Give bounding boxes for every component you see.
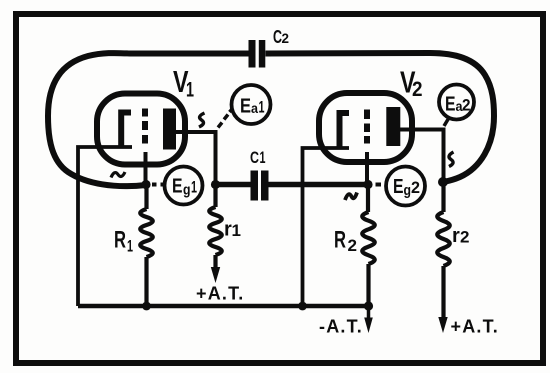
junction node cathode V2 bottom: [298, 302, 307, 311]
arrow to +A.T. right: [438, 317, 447, 333]
wire C1 right: [269, 182, 369, 188]
arrow to -A.T.: [367, 306, 371, 320]
svg-text:R: R: [334, 227, 346, 254]
svg-text:+A.T.: +A.T.: [451, 317, 500, 337]
wire feedback loop right (C2 to V2 anode): [266, 53, 495, 182]
svg-text:+A.T.: +A.T.: [196, 284, 245, 304]
node Eg1: [165, 167, 203, 205]
cathode of V1: [121, 113, 131, 148]
node Ea1: [232, 85, 271, 124]
svg-text:1: 1: [127, 237, 133, 256]
wire cathode V1: [78, 147, 132, 306]
cathode of V2: [340, 113, 350, 148]
svg-text:R: R: [114, 227, 126, 254]
node Eg2: [386, 167, 425, 206]
node Ea1 dashes: [218, 109, 233, 128]
svg-text:-A.T.: -A.T.: [319, 317, 363, 337]
wire anode V1: [175, 132, 216, 185]
svg-text:E: E: [393, 176, 404, 198]
node Eg2 dash: [376, 183, 382, 187]
node Ea2 dash: [444, 119, 449, 127]
anode of V2 (plate): [386, 107, 400, 146]
svg-text:r: r: [452, 225, 460, 247]
wire C1 left: [216, 182, 251, 188]
svg-text:2: 2: [348, 236, 358, 255]
anode of V1 (plate): [163, 109, 176, 150]
svg-text:2: 2: [462, 96, 471, 115]
junction node V2 anode: [438, 177, 448, 187]
resistor R2: [362, 185, 375, 307]
svg-text:a: a: [251, 100, 258, 116]
svg-text:2: 2: [411, 178, 420, 197]
node Eg1 dashes: [152, 183, 165, 187]
svg-text:2: 2: [412, 78, 423, 101]
svg-text:g: g: [183, 182, 191, 199]
junction node V1 grid: [141, 180, 150, 189]
svg-text:1: 1: [186, 79, 194, 102]
bottom rail wire: [78, 304, 368, 309]
resistor r2: [437, 182, 450, 319]
AC mark near V2 grid: [345, 193, 357, 201]
svg-text:1: 1: [191, 178, 197, 197]
wire anode V2: [399, 130, 444, 183]
wire grid V1 to node: [144, 152, 148, 185]
svg-text:1: 1: [260, 148, 266, 167]
AC mark near V2 anode: [449, 152, 454, 167]
AC mark near V1 cathode: [111, 172, 125, 178]
svg-text:E: E: [240, 96, 251, 118]
capacitor C2: [249, 40, 266, 68]
svg-text:1: 1: [259, 98, 265, 117]
tube V1 envelope: [97, 94, 185, 165]
node Ea2: [439, 85, 474, 120]
junction node R1 bottom: [142, 302, 151, 311]
wire feedback loop left (V1 grid to C2): [48, 53, 249, 186]
svg-text:2: 2: [460, 228, 469, 247]
grid of V2 (dashed): [364, 110, 370, 144]
grid of V1 (dashed): [142, 109, 148, 144]
capacitor C1: [251, 171, 269, 201]
svg-text:2: 2: [282, 30, 290, 46]
svg-text:C: C: [250, 148, 259, 167]
arrow to +A.T. left: [211, 267, 220, 283]
svg-text:1: 1: [232, 221, 241, 240]
resistor R1: [140, 185, 153, 307]
wire grid V2 to node: [365, 152, 369, 185]
svg-text:E: E: [445, 94, 456, 116]
svg-text:g: g: [404, 182, 412, 199]
AC mark near V1 anode: [199, 113, 205, 127]
junction node R2 bottom: [364, 301, 373, 310]
tube V2 envelope: [319, 93, 412, 162]
resistor r1: [209, 185, 222, 270]
wire cathode V2: [303, 148, 350, 306]
svg-text:E: E: [172, 176, 183, 198]
junction node V1 anode / C1: [211, 180, 220, 189]
junction node V2 grid: [363, 180, 372, 189]
